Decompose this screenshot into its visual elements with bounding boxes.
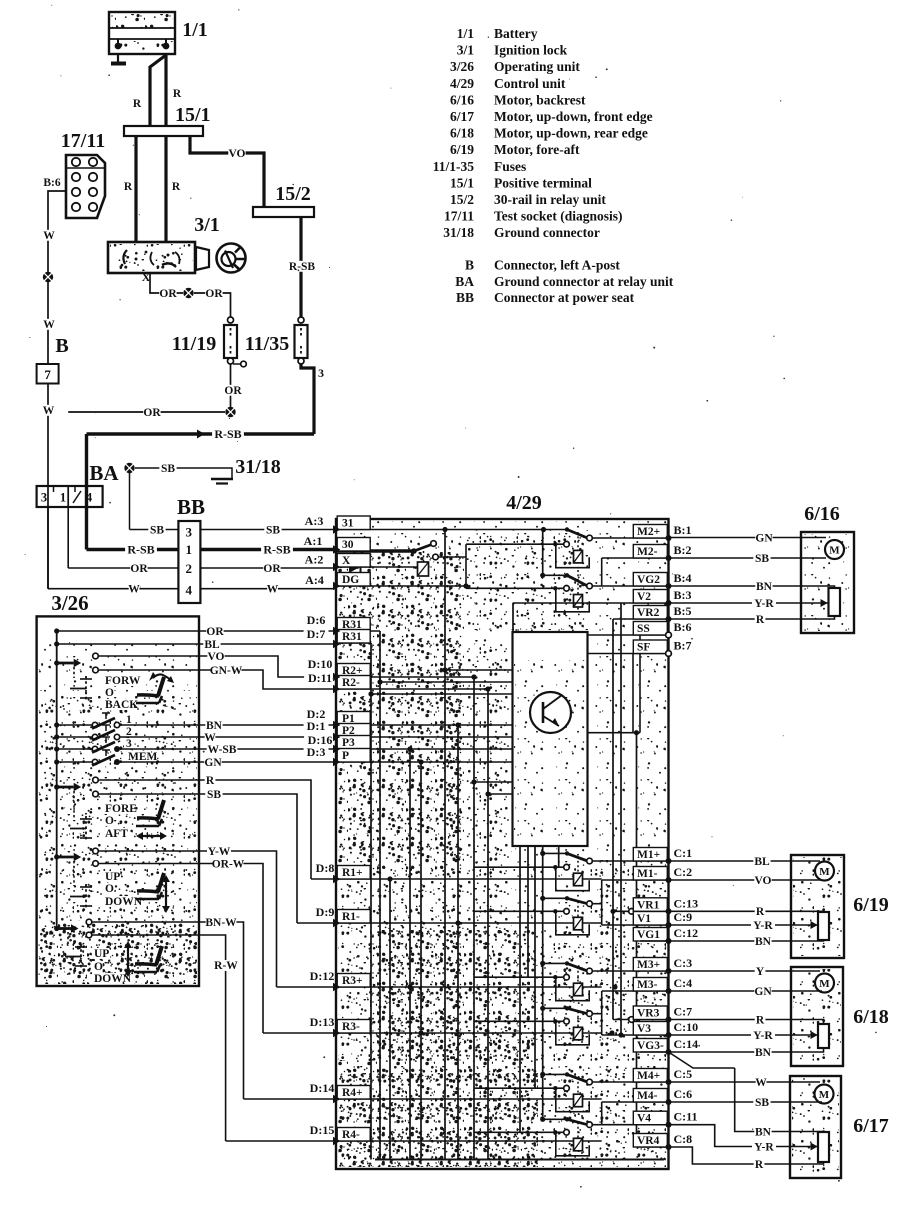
svg-text:W: W	[43, 405, 55, 417]
svg-text:SB: SB	[266, 524, 280, 536]
svg-text:R: R	[173, 88, 182, 100]
svg-text:B:5: B:5	[674, 604, 692, 618]
svg-text:A:1: A:1	[304, 534, 323, 548]
svg-text:4/29: 4/29	[506, 492, 542, 514]
svg-text:D:9: D:9	[316, 905, 335, 919]
svg-text:VO: VO	[228, 148, 245, 160]
svg-text:GN: GN	[754, 986, 772, 998]
svg-text:W: W	[128, 583, 140, 595]
svg-text:6/19: 6/19	[450, 142, 474, 157]
svg-text:2: 2	[185, 561, 192, 576]
svg-text:B:6: B:6	[674, 620, 692, 634]
svg-text:1/1: 1/1	[182, 19, 208, 41]
svg-text:D:1: D:1	[307, 719, 326, 733]
svg-text:Fuses: Fuses	[494, 159, 526, 174]
svg-text:15/1: 15/1	[175, 104, 211, 126]
svg-text:6/17: 6/17	[450, 109, 474, 124]
svg-text:BN: BN	[755, 1047, 772, 1059]
svg-text:11/19: 11/19	[172, 333, 216, 355]
svg-text:DOWN: DOWN	[94, 973, 132, 985]
svg-text:BN: BN	[755, 1126, 772, 1138]
svg-text:R-SB: R-SB	[289, 261, 316, 273]
svg-text:30: 30	[342, 539, 354, 551]
svg-text:C:11: C:11	[674, 1110, 698, 1124]
svg-text:A:2: A:2	[305, 553, 324, 567]
svg-text:C:14: C:14	[674, 1037, 699, 1051]
svg-text:3/26: 3/26	[450, 59, 474, 74]
svg-text:M: M	[819, 978, 830, 990]
svg-text:Positive terminal: Positive terminal	[494, 175, 592, 190]
svg-text:VR2: VR2	[637, 607, 660, 619]
svg-text:3: 3	[185, 525, 192, 540]
svg-text:O: O	[105, 883, 114, 895]
svg-text:R31: R31	[342, 631, 362, 643]
svg-text:C:1: C:1	[674, 846, 693, 860]
svg-text:Test socket (diagnosis): Test socket (diagnosis)	[494, 209, 623, 224]
svg-text:OR: OR	[263, 563, 281, 575]
svg-text:M3+: M3+	[637, 959, 660, 971]
svg-text:SS: SS	[637, 623, 650, 635]
svg-text:BB: BB	[456, 290, 474, 305]
svg-text:R2-: R2-	[342, 677, 360, 689]
svg-text:V4: V4	[637, 1113, 651, 1125]
svg-text:W: W	[43, 319, 55, 331]
svg-text:BN: BN	[756, 581, 773, 593]
svg-text:VR4: VR4	[637, 1135, 660, 1147]
svg-text:R: R	[756, 614, 765, 626]
svg-text:Motor, up-down, rear edge: Motor, up-down, rear edge	[494, 126, 648, 141]
svg-text:Y-R: Y-R	[754, 598, 774, 610]
svg-text:C:4: C:4	[674, 976, 693, 990]
svg-text:Ground connector at relay unit: Ground connector at relay unit	[494, 274, 674, 289]
svg-text:BL: BL	[754, 856, 770, 868]
svg-text:15/2: 15/2	[450, 192, 474, 207]
svg-text:7: 7	[44, 367, 51, 382]
svg-text:M: M	[829, 545, 840, 557]
svg-text:FORE: FORE	[105, 803, 137, 815]
svg-text:O: O	[94, 961, 103, 973]
svg-text:VG1: VG1	[637, 929, 660, 941]
svg-text:4: 4	[185, 583, 192, 598]
svg-text:Motor, up-down, front edge: Motor, up-down, front edge	[494, 109, 653, 124]
svg-text:1/1: 1/1	[457, 26, 475, 41]
svg-text:Connector, left A-post: Connector, left A-post	[494, 258, 620, 273]
svg-text:6/16: 6/16	[804, 503, 840, 525]
svg-text:GN: GN	[204, 757, 222, 769]
svg-text:O: O	[105, 687, 114, 699]
svg-text:1: 1	[60, 491, 66, 505]
svg-text:R: R	[206, 775, 215, 787]
svg-text:SB: SB	[161, 463, 175, 475]
svg-text:BN: BN	[206, 720, 223, 732]
svg-text:D:15: D:15	[310, 1123, 335, 1137]
svg-text:SB: SB	[755, 1097, 769, 1109]
svg-text:M1+: M1+	[637, 849, 660, 861]
svg-text:R-SB: R-SB	[214, 427, 241, 441]
svg-text:1: 1	[185, 542, 192, 557]
svg-text:31/18: 31/18	[235, 456, 281, 478]
svg-text:D:8: D:8	[316, 861, 335, 875]
svg-text:6/19: 6/19	[853, 894, 889, 916]
svg-text:DG: DG	[342, 574, 359, 586]
svg-text:B: B	[55, 335, 68, 357]
svg-text:W: W	[755, 1077, 767, 1089]
svg-text:3: 3	[318, 366, 324, 380]
svg-text:VR1: VR1	[637, 899, 660, 911]
svg-text:R: R	[172, 181, 181, 193]
svg-text:M4-: M4-	[637, 1090, 658, 1102]
svg-text:B: B	[465, 258, 474, 273]
svg-text:OR: OR	[159, 288, 177, 300]
svg-text:Y: Y	[756, 966, 765, 978]
svg-text:Y-R: Y-R	[753, 1030, 773, 1042]
svg-text:4/29: 4/29	[450, 76, 474, 91]
svg-text:V3: V3	[637, 1023, 651, 1035]
svg-text:M: M	[819, 866, 830, 878]
svg-text:C:10: C:10	[674, 1020, 699, 1034]
svg-text:X: X	[342, 555, 351, 567]
svg-text:W-SB: W-SB	[208, 744, 237, 756]
svg-text:A:4: A:4	[305, 573, 324, 587]
svg-text:V2: V2	[637, 591, 651, 603]
svg-text:17/11: 17/11	[444, 209, 474, 224]
svg-text:VO: VO	[754, 875, 771, 887]
svg-text:M3-: M3-	[637, 979, 658, 991]
svg-text:A:3: A:3	[305, 514, 324, 528]
svg-text:3/26: 3/26	[51, 591, 88, 615]
svg-text:BL: BL	[204, 639, 220, 651]
svg-text:Connector at power seat: Connector at power seat	[494, 290, 635, 305]
svg-text:Y-R: Y-R	[753, 920, 773, 932]
svg-text:M1-: M1-	[637, 868, 658, 880]
svg-text:Battery: Battery	[494, 26, 538, 41]
svg-text:C:6: C:6	[674, 1087, 693, 1101]
svg-text:B:3: B:3	[674, 588, 692, 602]
svg-text:Ground connector: Ground connector	[494, 225, 600, 240]
svg-text:GN: GN	[755, 532, 773, 544]
svg-text:R: R	[133, 98, 142, 110]
svg-text:C:12: C:12	[674, 926, 699, 940]
svg-text:30-rail in relay unit: 30-rail in relay unit	[494, 192, 606, 207]
svg-text:W: W	[204, 732, 216, 744]
svg-text:3/1: 3/1	[457, 43, 475, 58]
svg-text:Control unit: Control unit	[494, 76, 566, 91]
svg-text:D:7: D:7	[307, 627, 326, 641]
svg-text:VO: VO	[207, 651, 224, 663]
svg-text:SB: SB	[755, 553, 769, 565]
svg-text:6/18: 6/18	[853, 1006, 889, 1028]
svg-text:SB: SB	[150, 524, 164, 536]
svg-text:OR: OR	[143, 407, 161, 419]
svg-text:OR: OR	[224, 385, 242, 397]
svg-text:C:13: C:13	[674, 896, 699, 910]
svg-text:D:14: D:14	[310, 1081, 335, 1095]
svg-text:C:2: C:2	[674, 865, 693, 879]
svg-text:OR: OR	[130, 563, 148, 575]
svg-text:D:10: D:10	[308, 657, 333, 671]
svg-text:D:12: D:12	[310, 969, 335, 983]
svg-text:R: R	[756, 906, 765, 918]
svg-text:15/1: 15/1	[450, 175, 474, 190]
svg-text:D:6: D:6	[307, 613, 326, 627]
svg-text:Motor, backrest: Motor, backrest	[494, 92, 586, 107]
svg-text:VG2: VG2	[637, 574, 660, 586]
svg-text:SF: SF	[637, 642, 650, 654]
svg-text:BN: BN	[755, 936, 772, 948]
svg-text:B:6: B:6	[43, 177, 61, 189]
svg-text:C:7: C:7	[674, 1005, 693, 1019]
svg-text:D:3: D:3	[307, 745, 326, 759]
svg-text:B:2: B:2	[674, 543, 692, 557]
svg-text:R4+: R4+	[342, 1087, 363, 1099]
svg-text:R: R	[756, 1014, 765, 1026]
svg-text:W: W	[43, 230, 55, 242]
svg-text:D:11: D:11	[308, 671, 332, 685]
svg-text:BA: BA	[89, 461, 119, 485]
svg-text:P: P	[342, 750, 349, 762]
svg-text:R-W: R-W	[214, 960, 238, 972]
svg-text:VR3: VR3	[637, 1008, 660, 1020]
svg-text:VG3-: VG3-	[637, 1040, 664, 1052]
svg-text:Operating unit: Operating unit	[494, 59, 580, 74]
svg-text:OR: OR	[205, 288, 223, 300]
svg-text:D:13: D:13	[310, 1015, 335, 1029]
svg-text:Y-W: Y-W	[208, 846, 231, 858]
svg-text:11/1-35: 11/1-35	[433, 159, 475, 174]
svg-text:C:8: C:8	[674, 1132, 693, 1146]
svg-text:P3: P3	[342, 737, 355, 749]
svg-text:B:7: B:7	[674, 639, 692, 653]
svg-text:UP: UP	[105, 871, 120, 883]
svg-text:Y-R: Y-R	[754, 1141, 774, 1153]
svg-text:BACK: BACK	[105, 699, 138, 711]
svg-text:W: W	[267, 583, 279, 595]
svg-text:R1+: R1+	[342, 867, 363, 879]
svg-text:M2+: M2+	[637, 526, 660, 538]
svg-text:6/17: 6/17	[853, 1115, 889, 1137]
svg-text:R4-: R4-	[342, 1129, 360, 1141]
svg-text:C:5: C:5	[674, 1067, 693, 1081]
svg-text:R: R	[755, 1159, 764, 1171]
svg-text:OR-W: OR-W	[212, 858, 245, 870]
svg-text:R-SB: R-SB	[263, 542, 290, 556]
svg-text:31: 31	[342, 518, 354, 530]
svg-text:FORW: FORW	[105, 675, 141, 687]
svg-text:Motor, fore-aft: Motor, fore-aft	[494, 142, 580, 157]
svg-text:3/1: 3/1	[194, 214, 220, 236]
svg-text:R-SB: R-SB	[127, 542, 154, 556]
svg-text:R: R	[124, 181, 133, 193]
svg-text:SB: SB	[207, 789, 221, 801]
svg-text:BN-W: BN-W	[205, 917, 237, 929]
svg-text:R1-: R1-	[342, 911, 360, 923]
svg-text:UP: UP	[94, 948, 109, 960]
svg-text:3: 3	[41, 491, 47, 505]
svg-text:O: O	[105, 815, 114, 827]
svg-text:15/2: 15/2	[275, 183, 311, 205]
svg-text:B:1: B:1	[674, 523, 692, 537]
svg-text:11/35: 11/35	[245, 333, 289, 355]
svg-text:OR: OR	[206, 626, 224, 638]
svg-text:M: M	[819, 1089, 830, 1101]
svg-text:31/18: 31/18	[443, 225, 474, 240]
svg-text:B:4: B:4	[674, 571, 692, 585]
svg-text:6/18: 6/18	[450, 126, 474, 141]
svg-text:6/16: 6/16	[450, 92, 474, 107]
svg-text:BB: BB	[177, 495, 205, 519]
svg-text:17/11: 17/11	[61, 130, 105, 152]
svg-text:GN-W: GN-W	[210, 665, 243, 677]
svg-text:C:3: C:3	[674, 956, 693, 970]
svg-text:Ignition lock: Ignition lock	[494, 43, 568, 58]
svg-text:R3-: R3-	[342, 1021, 360, 1033]
svg-text:BA: BA	[455, 274, 474, 289]
svg-text:M2-: M2-	[637, 546, 658, 558]
svg-text:M4+: M4+	[637, 1070, 660, 1082]
svg-text:R3+: R3+	[342, 975, 363, 987]
svg-text:V1: V1	[637, 913, 651, 925]
svg-text:AFT: AFT	[105, 828, 128, 840]
